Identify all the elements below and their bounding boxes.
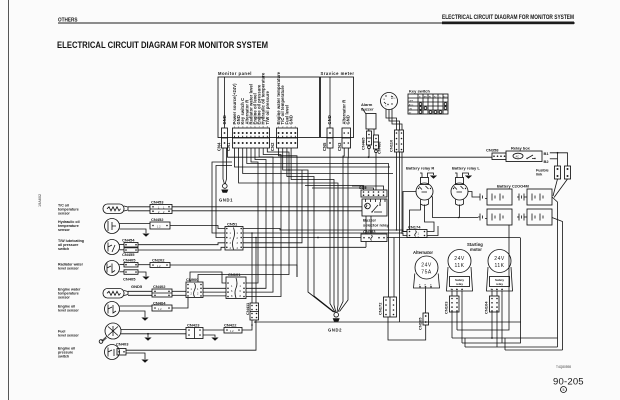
CN3 wire to funnel line 7 xyxy=(340,148,349,312)
CN2 GND wire to funnel line 4 xyxy=(291,148,336,313)
wire CN51 r1 to CN174 xyxy=(243,229,407,232)
ground battery relay L xyxy=(465,175,472,179)
connector CN2 pin labels xyxy=(276,71,294,124)
footer circled mark xyxy=(561,387,567,393)
connector CN454 xyxy=(120,238,139,248)
svg-text:ACC: ACC xyxy=(391,97,396,100)
wire hydraulic to CN51 xyxy=(170,226,225,229)
svg-text:CN423: CN423 xyxy=(187,323,200,328)
buzzer wires down to SE5 xyxy=(368,144,370,147)
svg-text:B2: B2 xyxy=(544,159,550,164)
wire CN1 pin4 alternator R riser xyxy=(247,148,389,297)
wire CN1 pin1 to CN110 area xyxy=(235,148,391,167)
svg-text:CN3: CN3 xyxy=(337,142,342,151)
connector CN104 xyxy=(484,296,500,314)
wire battery r1 left to relay L xyxy=(468,192,478,198)
service meter box xyxy=(321,71,355,138)
svg-text:CN51: CN51 xyxy=(227,222,238,227)
monitor panel box xyxy=(218,71,320,138)
wire battery r2 right to vertical xyxy=(552,218,563,351)
wire CN4 to relay box CN358 xyxy=(228,148,493,157)
bottom loop y350 xyxy=(505,338,563,350)
alternator B wire to CN105 xyxy=(425,288,427,313)
starting motor 1 xyxy=(447,250,473,292)
battery box r1b1 xyxy=(487,189,512,205)
wire CN202 to CN101 top xyxy=(170,265,297,277)
svg-text:CN454: CN454 xyxy=(122,238,135,243)
svg-text:Monitor panel: Monitor panel xyxy=(218,71,252,76)
GND2 symbol xyxy=(328,313,342,333)
CN2 wire to funnel line 2 xyxy=(287,148,335,312)
header rule xyxy=(58,22,575,24)
wire CN51 r3 to CN383 xyxy=(243,237,361,239)
CN110 wires down xyxy=(396,152,398,230)
svg-text:CN105: CN105 xyxy=(418,317,423,330)
bottom loop y338 xyxy=(452,337,558,339)
relay box xyxy=(506,146,542,162)
connector CN2 xyxy=(270,127,298,151)
CN5 wire to funnel line 3 xyxy=(330,148,335,312)
wires CN411 top up xyxy=(251,233,253,303)
connector CN4 xyxy=(217,115,228,151)
wire battery r1 right to fuse vertical xyxy=(552,197,558,347)
connector CN465 xyxy=(361,131,372,150)
bundle riser 5 xyxy=(198,148,289,282)
svg-text:T4Q80598: T4Q80598 xyxy=(556,365,571,369)
wires CN900 right to CN101 xyxy=(203,287,226,289)
connector CN172 xyxy=(378,297,397,317)
bundle riser 2 xyxy=(246,148,266,288)
connector CN411 xyxy=(245,302,259,320)
wire CN383 to CN174 xyxy=(387,237,521,239)
svg-text:CN455: CN455 xyxy=(122,252,135,257)
header right thick rule xyxy=(442,22,574,25)
CN2 wire to funnel line 1 xyxy=(283,148,334,312)
svg-text:CN358: CN358 xyxy=(486,148,499,153)
svg-text:1 2: 1 2 xyxy=(157,265,161,268)
key switch xyxy=(381,93,398,110)
svg-text:CN202: CN202 xyxy=(152,258,165,263)
svg-text:CN103: CN103 xyxy=(444,301,449,314)
svg-text:CN465: CN465 xyxy=(361,137,366,150)
svg-text:CN110: CN110 xyxy=(389,139,394,152)
wires fuel to CN423 xyxy=(121,329,186,331)
svg-text:sensor: sensor xyxy=(58,296,70,300)
connector CN405 lower xyxy=(120,270,139,282)
buzzer relay to CN383 wires xyxy=(365,216,367,234)
wire pressure switch to CN411 xyxy=(126,320,256,350)
svg-text:24V: 24V xyxy=(454,256,465,262)
connector CN404 xyxy=(152,301,172,312)
B2 wire xyxy=(550,158,558,160)
connector CN455 xyxy=(120,248,139,257)
ground CN423 right xyxy=(203,335,219,341)
svg-text:CN411: CN411 xyxy=(245,302,250,315)
CN105 bottom wire to CN172 xyxy=(388,317,426,340)
SE5 connector xyxy=(359,185,387,197)
svg-text:level sensor: level sensor xyxy=(58,267,79,271)
wire CN404 to CN900 bottom xyxy=(172,298,188,309)
fusible link 1 xyxy=(555,166,561,179)
svg-text:T/W oil pressure: T/W oil pressure xyxy=(265,90,270,124)
svg-text:11K: 11K xyxy=(494,263,504,269)
B1 wire xyxy=(550,153,568,166)
svg-text:sensor: sensor xyxy=(58,212,70,216)
motor1 pin wires xyxy=(451,291,453,296)
svg-text:CN405: CN405 xyxy=(123,258,136,263)
battery cells between r1 xyxy=(517,194,527,201)
bundle riser 4 xyxy=(246,148,281,297)
battery cells left r1 xyxy=(478,194,487,201)
ground pressure switch xyxy=(126,353,149,363)
connector CN423 xyxy=(186,323,203,339)
connector CN202 xyxy=(150,258,170,268)
svg-text:GND: GND xyxy=(289,115,294,124)
svg-text:CN4: CN4 xyxy=(217,142,222,151)
svg-text:BR: BR xyxy=(424,96,427,98)
connector CN402 xyxy=(152,284,172,297)
svg-text:GND: GND xyxy=(346,115,351,124)
buzzer leads xyxy=(368,129,370,131)
wire T/C to buzzer relay xyxy=(172,206,362,208)
svg-text:Battery relay L: Battery relay L xyxy=(452,166,480,171)
wire hydraulic row xyxy=(120,223,151,225)
CN51 row3 left feed xyxy=(216,166,232,238)
battery box r1b2 xyxy=(527,189,552,205)
svg-text:GND2: GND2 xyxy=(328,328,342,333)
alternator xyxy=(413,250,440,288)
wire B1 junction to fuse1 xyxy=(557,153,559,166)
svg-text:Relay box: Relay box xyxy=(511,146,531,151)
svg-text:24V: 24V xyxy=(421,263,432,269)
SE5 top wires to maze xyxy=(305,186,364,191)
connector CN900 xyxy=(186,277,203,298)
svg-text:CN402: CN402 xyxy=(153,284,166,289)
connector CN103 xyxy=(444,296,460,314)
connector CN1 xyxy=(226,127,270,151)
wire CN423 to CN422 xyxy=(203,329,224,331)
svg-text:relay: relay xyxy=(456,282,463,286)
connector CN405 upper xyxy=(120,258,139,268)
Hydraulic oil temperature sensor xyxy=(58,219,120,234)
svg-text:CN422: CN422 xyxy=(224,323,237,328)
connector CN453 xyxy=(150,200,172,215)
svg-text:CN2: CN2 xyxy=(270,142,275,151)
svg-text:GND1: GND1 xyxy=(219,198,233,203)
svg-text:switch: switch xyxy=(58,355,69,359)
connector CN105 xyxy=(418,313,429,330)
CN465 terminal xyxy=(368,146,371,149)
svg-text:11K: 11K xyxy=(454,263,464,269)
svg-text:19A602: 19A602 xyxy=(38,194,42,207)
svg-text:Battery C2OO4M: Battery C2OO4M xyxy=(497,184,529,189)
svg-text:Key switch: Key switch xyxy=(409,89,430,94)
svg-text:relay: relay xyxy=(496,282,503,286)
svg-text:75A: 75A xyxy=(421,270,432,276)
Radiator water level sensor xyxy=(58,261,120,276)
svg-text:AC: AC xyxy=(516,156,520,159)
wire CN422 to CN411 xyxy=(242,320,252,330)
wire CN411/CN422 long to battery right xyxy=(255,321,521,323)
svg-text:Alternator: Alternator xyxy=(413,250,433,255)
svg-text:level sensor: level sensor xyxy=(58,309,79,313)
relay R cup wire to CN174 xyxy=(410,204,421,230)
CN1 GND wire to funnel line 5 xyxy=(239,148,338,313)
connector CN422 xyxy=(224,323,242,334)
svg-text:1 2: 1 2 xyxy=(158,308,162,311)
svg-text:ON: ON xyxy=(409,108,413,110)
svg-text:Battery relay R: Battery relay R xyxy=(406,166,434,171)
svg-text:sensor: sensor xyxy=(58,228,70,232)
svg-text:GND: GND xyxy=(327,115,332,124)
svg-text:5: 5 xyxy=(563,388,565,392)
battery box r2b1 xyxy=(487,209,512,225)
svg-text:CN174: CN174 xyxy=(408,225,421,230)
svg-text:selector relay: selector relay xyxy=(363,223,390,228)
wire radiator upper to CN202 xyxy=(138,264,150,266)
svg-text:ELECTRICAL CIRCUIT DIAGRAM FOR: ELECTRICAL CIRCUIT DIAGRAM FOR MONITOR S… xyxy=(442,15,574,21)
GND1 symbol xyxy=(219,184,233,203)
svg-text:90-205: 90-205 xyxy=(553,377,584,388)
bundle riser 3 xyxy=(246,148,273,292)
battery cells between r2 xyxy=(517,214,527,221)
svg-text:OFF: OFF xyxy=(409,100,414,102)
connector CN452 xyxy=(150,217,170,229)
svg-text:link: link xyxy=(536,173,542,177)
svg-text:ELECTRICAL CIRCUIT DIAGRAM FOR: ELECTRICAL CIRCUIT DIAGRAM FOR MONITOR S… xyxy=(57,40,268,50)
svg-text:1 2: 1 2 xyxy=(230,330,234,333)
wire CN51 r5 to CN383 bottom xyxy=(243,242,366,248)
CN466 terminal xyxy=(375,150,378,153)
fuse2 bottom diagonal xyxy=(554,179,568,198)
wires CN402 to CN900 xyxy=(172,290,186,292)
T/W lubricating oil pressure switch xyxy=(58,239,120,255)
svg-text:CN453: CN453 xyxy=(151,200,164,205)
svg-text:CN104: CN104 xyxy=(484,301,489,314)
svg-text:GND5: GND5 xyxy=(131,284,143,289)
svg-text:switch: switch xyxy=(58,247,69,251)
connector CN174 xyxy=(407,225,427,240)
svg-text:CN5: CN5 xyxy=(322,142,327,151)
svg-text:CN900: CN900 xyxy=(186,277,199,282)
ground radiator (GND5) xyxy=(131,272,150,289)
Engine water temperature sensor xyxy=(58,288,128,300)
battery relay L xyxy=(451,166,480,206)
key switch table xyxy=(408,89,448,115)
motor2 pin wires xyxy=(491,291,493,296)
fuse1 bottom diagonal xyxy=(553,179,558,196)
fusible link 2 xyxy=(565,166,571,179)
connector CN5 xyxy=(322,115,333,151)
bundle riser 6 (radiator) xyxy=(279,148,298,277)
wire CN51 r2 to CN174 xyxy=(243,233,407,236)
svg-text:CN405: CN405 xyxy=(123,277,136,282)
wire battery r2 left to relay R xyxy=(431,196,478,218)
battery relay R xyxy=(406,166,434,206)
battery cells left r2 xyxy=(478,214,487,221)
bottom loop y330 xyxy=(457,225,509,330)
key switch wires to CN110 xyxy=(386,109,397,130)
T/C oil temperature sensor xyxy=(58,204,128,216)
svg-text:CN452: CN452 xyxy=(151,217,164,222)
CN174 right wires up xyxy=(425,205,435,232)
wire engine oil level to CN404 xyxy=(120,305,153,307)
wire T/C rows xyxy=(128,206,150,208)
ground fuel line xyxy=(144,333,151,341)
connector CN110 xyxy=(389,130,404,152)
alarm buzzer xyxy=(361,102,376,129)
starting motor 2 xyxy=(487,250,513,292)
battery box r2b2 xyxy=(527,209,552,225)
ground hydraulic sensor xyxy=(120,229,150,237)
Engine oil pressure switch xyxy=(58,342,129,360)
CN3 wire to funnel line 6 xyxy=(338,148,344,312)
page left edge xyxy=(8,0,10,400)
svg-text:level sensor: level sensor xyxy=(58,334,79,338)
Fuel level sensor xyxy=(58,323,121,343)
svg-text:1 2: 1 2 xyxy=(157,226,161,229)
svg-text:motor: motor xyxy=(470,247,482,252)
CN51 row2 left feed xyxy=(212,162,232,233)
connector CN358 xyxy=(486,148,506,160)
connector CN101 xyxy=(226,272,246,299)
buzzer selector relay box xyxy=(362,199,390,228)
GND1 wires from CN4 xyxy=(223,148,227,184)
bottom loop y347 xyxy=(465,338,558,347)
wire CN900 top jog to CN101 xyxy=(190,272,226,283)
svg-text:Sravice meter: Sravice meter xyxy=(321,71,355,76)
connector CN51 xyxy=(225,222,243,251)
connector CN3 xyxy=(337,100,351,151)
svg-text:CN172: CN172 xyxy=(378,302,383,315)
bundle CN101 right riser 1 xyxy=(246,148,258,283)
connector CN466 xyxy=(374,135,382,154)
svg-text:24V: 24V xyxy=(494,256,505,262)
wires T/W to CN51 xyxy=(138,243,225,245)
relay R left wire to CN174 xyxy=(403,192,416,232)
connector CN1 pin labels xyxy=(232,72,270,124)
bottom loop y343 xyxy=(462,238,521,343)
svg-text:GND: GND xyxy=(222,115,227,124)
svg-text:ACC: ACC xyxy=(443,95,448,98)
ground engine oil level xyxy=(120,311,149,321)
wires engine water rows xyxy=(128,290,152,292)
svg-text:CN403: CN403 xyxy=(116,342,129,347)
svg-text:B1: B1 xyxy=(544,151,550,156)
wire CN1 pin3 keyswitch C xyxy=(243,148,393,174)
svg-text:ACC: ACC xyxy=(409,103,414,106)
Engine oil level sensor xyxy=(58,302,120,317)
connector CN383 xyxy=(361,229,387,242)
wire CN51 r4 to CN172 riser xyxy=(243,170,302,243)
ground battery relay R xyxy=(430,175,437,179)
